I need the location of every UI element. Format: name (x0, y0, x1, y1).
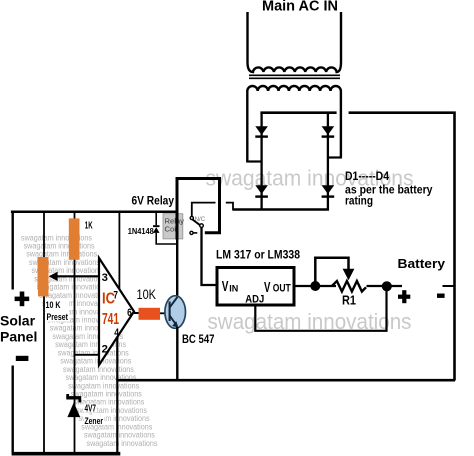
diode D2 (322, 126, 335, 138)
transistor Q1 BC547 (165, 296, 186, 329)
svg-text:6: 6 (127, 307, 132, 319)
watermark small tiled rows (21, 233, 158, 447)
label 10 K Preset (45, 299, 69, 321)
wire pin2 stub (75, 354, 100, 356)
node bridge left column (260, 113, 262, 210)
svg-text:1N4148: 1N4148 (128, 226, 154, 236)
resistor 1K (69, 218, 80, 259)
node junction dot right of R1 (382, 281, 392, 291)
battery negative tick (443, 285, 455, 287)
wire relay pole to LM317 input (202, 228, 217, 286)
wire right edge battery negative line (453, 111, 456, 380)
svg-text:IN: IN (229, 283, 238, 294)
svg-text:Battery: Battery (398, 256, 446, 271)
svg-text:1K: 1K (85, 221, 93, 232)
svg-text:BC 547: BC 547 (182, 334, 215, 346)
preset P1 body (38, 257, 49, 296)
label VIN (222, 279, 239, 295)
wire pin6 stub (134, 312, 140, 314)
svg-text:V: V (264, 280, 271, 296)
svg-text:V: V (222, 279, 229, 295)
svg-text:R1: R1 (342, 294, 356, 308)
svg-text:Panel: Panel (0, 329, 37, 345)
node bridge right column (327, 113, 329, 210)
wire secondary left lead to bridge (246, 160, 260, 162)
svg-text:3: 3 (102, 272, 108, 284)
svg-text:Preset: Preset (47, 312, 69, 323)
svg-text:Zener: Zener (85, 416, 104, 427)
wire emitter to ground (176, 327, 178, 380)
relay N/O contact and stub (190, 231, 197, 234)
label 4V7 Zener (84, 404, 98, 413)
wire LM317 output (294, 285, 336, 287)
transformer T1 primary winding with leads (248, 12, 342, 72)
wire zener column (74, 211, 76, 452)
solar panel label background (0, 290, 38, 366)
wire bridge bottom rail (233, 208, 329, 211)
label battery plus (398, 290, 410, 303)
wire relay N/C contact to bridge positive (192, 203, 233, 217)
relay coil box (163, 214, 184, 239)
diode D4 (322, 185, 335, 198)
svg-text:6V Relay: 6V Relay (132, 194, 175, 208)
relay pole circle (200, 224, 204, 228)
transformer T1 secondary winding with leads (247, 86, 341, 162)
resistor 10K (139, 308, 161, 320)
wire bridge top rail left part (260, 111, 336, 114)
label solar minus (16, 356, 29, 361)
preset wiper arrowhead (49, 272, 58, 281)
svg-text:Main AC IN: Main AC IN (262, 0, 338, 15)
label VOUT (264, 280, 291, 296)
wire ground rail (116, 379, 455, 382)
zener Z1 triangle (67, 402, 80, 417)
regulator U2 LM317 box (217, 268, 294, 306)
svg-text:ADJ: ADJ (245, 293, 264, 305)
op-amp U1 triangle (99, 258, 134, 365)
wire base (160, 312, 170, 314)
svg-text:4V7: 4V7 (85, 403, 97, 414)
svg-text:LM 317 or LM338: LM 317 or LM338 (216, 248, 300, 262)
diode 1N4148 branch wire (156, 212, 177, 244)
relay switch arm (193, 220, 201, 226)
wire op-amp V- pin4 line to ground (116, 334, 118, 453)
relay N/C contact circle (190, 216, 193, 219)
diode D1 (255, 126, 268, 138)
label solar plus (15, 292, 30, 307)
node junction dot left of R1 (310, 281, 320, 291)
diode D3 (255, 185, 268, 198)
wire R1 wiper bracket (315, 258, 348, 286)
wire solar panel left edge (11, 211, 13, 454)
wire solar top rail (11, 210, 177, 213)
svg-text:4: 4 (114, 327, 119, 339)
wire R1 right to battery plus (367, 285, 403, 287)
label D1-D4 note (345, 169, 433, 208)
wire secondary right lead to bridge (329, 156, 342, 158)
label battery minus (437, 294, 445, 298)
svg-text:10 K: 10 K (46, 300, 61, 311)
label IC 741 (102, 291, 119, 329)
svg-text:10K: 10K (137, 287, 157, 302)
wire bridge top rail right part to right edge (349, 111, 454, 114)
wire relay coil to transistor collector (176, 211, 179, 240)
svg-text:rating: rating (345, 194, 373, 208)
wire solar bottom bar (12, 452, 121, 456)
svg-text:Solar: Solar (0, 313, 36, 329)
wire relay supply loop (coil top to N/O contact) (177, 179, 220, 233)
svg-text:IC: IC (102, 291, 115, 308)
zener Z1 4V7 bar (66, 394, 81, 402)
resistor R1 zigzag (332, 281, 367, 292)
wire op-amp V+ pin7 line (118, 211, 120, 290)
wire preset wiper to pin3 (56, 275, 99, 277)
R1 wiper arrowhead (343, 269, 355, 280)
svg-text:swagatam innovations: swagatam innovations (87, 439, 158, 448)
label Solar Panel (0, 313, 37, 345)
svg-text:OUT: OUT (273, 283, 291, 295)
svg-text:2: 2 (102, 343, 108, 355)
wire ADJ feedback (255, 288, 386, 331)
svg-text:D1-----D4: D1-----D4 (345, 169, 389, 183)
wire preset column (43, 211, 45, 452)
svg-text:741: 741 (102, 311, 119, 328)
diode 1N4148 symbol (153, 225, 160, 233)
transformer T1 core (249, 75, 340, 78)
